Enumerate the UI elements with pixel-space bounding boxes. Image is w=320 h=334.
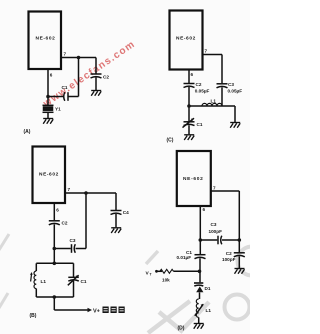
svg-text:L1: L1 xyxy=(211,98,217,103)
svg-text:(B): (B) xyxy=(30,313,37,319)
svg-text:NE-602: NE-602 xyxy=(39,172,59,178)
svg-text:0.05µF: 0.05µF xyxy=(195,89,210,94)
svg-text:C4: C4 xyxy=(123,210,129,215)
svg-text:7: 7 xyxy=(213,186,216,191)
svg-text:C1: C1 xyxy=(62,85,68,90)
svg-text:NE-602: NE-602 xyxy=(183,176,203,182)
svg-text:D1: D1 xyxy=(205,286,211,291)
svg-text:T: T xyxy=(150,273,153,277)
svg-text:C2: C2 xyxy=(226,251,232,256)
svg-text:C3: C3 xyxy=(228,82,234,87)
svg-text:6: 6 xyxy=(50,73,53,78)
svg-text:7: 7 xyxy=(205,49,208,54)
svg-text:NE-602: NE-602 xyxy=(36,36,56,42)
svg-text:0.01µF: 0.01µF xyxy=(177,255,192,260)
svg-text:L1: L1 xyxy=(41,279,47,284)
svg-text:6: 6 xyxy=(191,72,194,77)
svg-text:100pF: 100pF xyxy=(209,229,223,234)
svg-text:Y1: Y1 xyxy=(55,107,61,112)
svg-text:(A): (A) xyxy=(24,129,31,135)
svg-text:C1: C1 xyxy=(197,122,203,127)
svg-text:C3: C3 xyxy=(70,238,76,243)
svg-text:NE-602: NE-602 xyxy=(176,36,196,42)
svg-text:C2: C2 xyxy=(62,221,68,226)
svg-text:(C): (C) xyxy=(167,138,174,144)
svg-text:6: 6 xyxy=(203,207,206,212)
svg-text:C1: C1 xyxy=(81,279,87,284)
svg-text:10k: 10k xyxy=(162,278,170,283)
svg-text:7: 7 xyxy=(64,52,67,57)
svg-text:6: 6 xyxy=(56,208,59,213)
svg-text:V+: V+ xyxy=(93,309,100,315)
svg-text:C2: C2 xyxy=(103,75,109,80)
svg-text:7: 7 xyxy=(68,187,71,192)
svg-text:(D): (D) xyxy=(178,326,185,332)
svg-text:100pF: 100pF xyxy=(222,257,236,262)
svg-text:C3: C3 xyxy=(211,222,217,227)
svg-text:0.05µF: 0.05µF xyxy=(228,89,243,94)
svg-text:www.elecfans.com: www.elecfans.com xyxy=(41,39,138,110)
svg-text:C2: C2 xyxy=(196,82,202,87)
svg-text:L1: L1 xyxy=(206,308,212,313)
